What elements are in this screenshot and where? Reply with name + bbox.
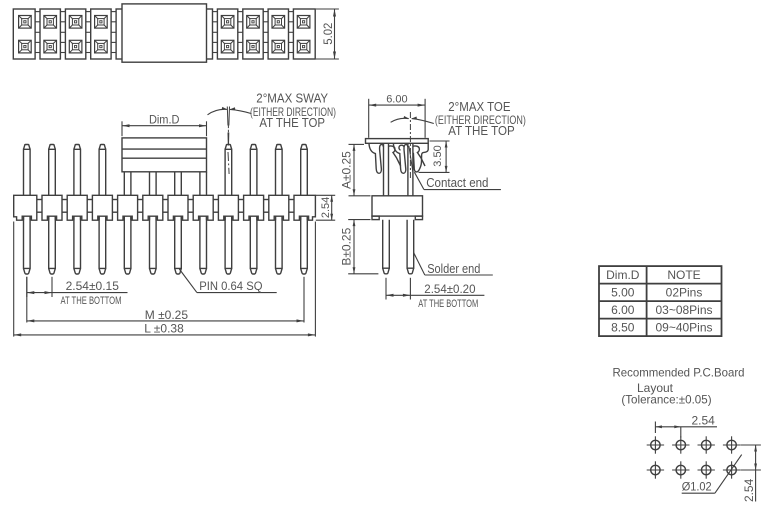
front view pin 1 contact post: [24, 145, 31, 197]
front view pin 8 solder tail: [200, 215, 207, 274]
svg-text:M ±0.25: M ±0.25: [145, 308, 189, 322]
svg-text:(Tolerance:±0.05): (Tolerance:±0.05): [621, 392, 711, 406]
front view pin 10 contact post: [250, 145, 257, 197]
front view pin 3 notch segment: [74, 216, 81, 220]
top view pin 3 row B: [69, 40, 82, 53]
front view insulator block 9: [218, 195, 238, 220]
top view web between insulator 9 and 10: [238, 12, 243, 53]
svg-text:AT THE TOP: AT THE TOP: [259, 115, 325, 130]
dimension 2.54±0.15 at the bottom: [27, 277, 128, 307]
side view right retention hook: [413, 143, 428, 172]
front view pin 8 notch segment: [200, 216, 207, 220]
top view web between insulator 5 and 6: [136, 12, 141, 53]
table frame: [599, 266, 722, 336]
leader PIN 0.64 SQ: [179, 269, 276, 293]
front view insulator block 12: [294, 195, 315, 220]
leader Ø1.02 hole diameter: [682, 455, 742, 494]
top view pin 1 row A: [19, 16, 32, 29]
leader Solder end: [414, 252, 493, 275]
side view contact 2 spring finger: [393, 143, 407, 173]
PCB layout heading: [613, 366, 745, 407]
front view pin 3 contact post: [74, 145, 81, 197]
svg-text:8.50: 8.50: [611, 321, 635, 335]
PCB hole r1c1: [647, 436, 664, 453]
top view web between insulator 4 and 5: [111, 12, 116, 53]
svg-text:Solder end: Solder end: [427, 262, 480, 276]
top view: pin header strip (plan view): [13, 4, 339, 62]
top view pin 10 row A: [247, 16, 260, 29]
svg-text:2.54: 2.54: [692, 413, 716, 427]
svg-text:2°MAX TOE: 2°MAX TOE: [448, 99, 510, 114]
svg-text:Ø1.02: Ø1.02: [682, 479, 712, 493]
svg-text:PIN 0.64 SQ: PIN 0.64 SQ: [199, 279, 262, 293]
svg-text:2.54: 2.54: [742, 478, 756, 502]
front view pin 1 notch segment: [24, 216, 31, 220]
front view web between blocks 4/5: [112, 200, 117, 213]
side view contact 2 retention knob: [413, 146, 425, 166]
front view pin 2 contact post: [49, 145, 56, 197]
front view web between blocks 8/9: [213, 200, 218, 213]
top view pin 10 row B: [247, 40, 260, 53]
top view web between insulator 11 and 12: [289, 12, 294, 53]
top view pin 2 row A: [44, 16, 57, 29]
PCB hole r1c2: [672, 436, 689, 453]
front view pin 8 shank below spacer: [200, 172, 207, 197]
top view pin 12 row B: [297, 40, 310, 53]
side view insulator housing: [372, 196, 423, 220]
front view insulator block 4: [92, 195, 112, 220]
top view insulator block 8: [192, 9, 212, 59]
top view insulator block 6: [141, 9, 161, 59]
PCB hole r2c3: [698, 461, 715, 478]
svg-text:L ±0.38: L ±0.38: [144, 321, 184, 335]
PCB hole r2c1: [647, 461, 664, 478]
front view pin 9 notch segment: [225, 216, 232, 220]
leader Contact end: [414, 172, 501, 190]
front view pin 4 notch segment: [99, 216, 106, 220]
svg-text:09~40Pins: 09~40Pins: [655, 321, 712, 335]
svg-text:Recommended P.C.Board: Recommended P.C.Board: [613, 366, 745, 380]
front view pin 9 (sway pin): [225, 107, 232, 197]
svg-text:2.54±0.15: 2.54±0.15: [66, 279, 120, 293]
2 deg max sway annotation: [208, 90, 337, 130]
top view insulator block 4: [91, 9, 111, 59]
svg-text:2°MAX SWAY: 2°MAX SWAY: [256, 90, 328, 105]
svg-text:3.50: 3.50: [432, 145, 444, 166]
dimension Dim.D: [122, 112, 207, 136]
front view web between blocks 1/2: [37, 200, 42, 213]
svg-text:2.54±0.20: 2.54±0.20: [424, 282, 476, 296]
front view web between blocks 3/4: [87, 200, 92, 213]
top view pin 4 row A: [95, 16, 108, 29]
dimension B±0.25: [340, 220, 379, 274]
front view pin 6 solder tail: [150, 215, 157, 274]
front view insulator block 8: [193, 195, 213, 220]
front view pin 2 notch segment: [49, 216, 56, 220]
side view toe deflection line: [409, 146, 413, 172]
top view pin 9 row A: [221, 16, 234, 29]
side view contact top plate: [366, 139, 429, 144]
svg-text:5.02: 5.02: [321, 23, 335, 45]
dimension 3.50: [419, 141, 450, 172]
front view pin 7 solder tail: [175, 215, 182, 274]
top view pin 3 row A: [69, 16, 82, 29]
top view insulator block 10: [243, 9, 263, 59]
top view insulator block 9: [217, 9, 237, 59]
front view pin 5 notch segment: [124, 216, 131, 220]
front view pin 4 solder tail: [99, 215, 106, 274]
table row 8.50: [611, 321, 712, 335]
front view web between blocks 5/6: [138, 200, 143, 213]
top view web between insulator 1 and 2: [35, 12, 40, 53]
front view pin 7 notch segment: [175, 216, 182, 220]
svg-text:AT THE TOP: AT THE TOP: [448, 123, 515, 138]
svg-text:AT THE BOTTOM: AT THE BOTTOM: [418, 298, 478, 310]
front view web between blocks 9/10: [238, 200, 243, 213]
front view pin 10 solder tail: [250, 215, 257, 274]
top view pin 1 row B: [19, 40, 32, 53]
top view insulator block 3: [65, 9, 85, 59]
table row 6.00: [611, 303, 712, 317]
top view pin 12 row A: [297, 16, 310, 29]
top view pin 4 row B: [95, 40, 108, 53]
top view insulator block 2: [40, 9, 60, 59]
table row lines: [599, 284, 722, 319]
front view pin 10 notch segment: [250, 216, 257, 220]
front view insulator block 10: [244, 195, 264, 220]
PCB hole r2c2: [672, 461, 689, 478]
top view web between insulator 7 and 8: [187, 12, 192, 53]
svg-text:Dim.D: Dim.D: [606, 268, 640, 282]
front view pin 4 contact post: [99, 145, 106, 197]
front view insulator block 7: [168, 195, 188, 220]
top view pin 9 row B: [221, 40, 234, 53]
front view insulator block 3: [67, 195, 87, 220]
top view pin 11 row A: [272, 16, 285, 29]
top view insulator block 5: [116, 9, 136, 59]
front view pin 11 notch segment: [276, 216, 283, 220]
top view insulator block 1: [13, 9, 35, 59]
top view web between insulator 6 and 7: [162, 12, 167, 53]
dimension 2.54 (row pitch, front view): [316, 195, 335, 220]
table row 5.00: [611, 286, 702, 300]
front view insulator block 1: [14, 195, 37, 220]
2 deg max toe annotation: [391, 99, 526, 178]
side view contact 1 spring finger: [369, 143, 383, 173]
front view pin 1 solder tail: [24, 215, 31, 274]
top view insulator block 11: [268, 9, 288, 59]
front view pin 6 notch segment: [150, 216, 157, 220]
dimension 2.54 (hole pitch horizontal): [655, 413, 717, 437]
dimension A±0.25: [340, 144, 371, 195]
PCB hole r2c4: [723, 461, 740, 478]
top view insulator block 7: [167, 9, 187, 59]
top view pin 2 row B: [44, 40, 57, 53]
top view web between insulator 8 and 9: [212, 12, 217, 53]
front view pin 12 notch segment: [301, 216, 308, 220]
svg-text:Contact end: Contact end: [426, 176, 488, 190]
table row Dim.D: [606, 268, 701, 282]
svg-text:Dim.D: Dim.D: [149, 112, 180, 126]
front view pin 12 solder tail: [301, 215, 308, 274]
svg-text:2.54: 2.54: [320, 197, 332, 218]
front view spacer (Dim.D body): [122, 138, 207, 172]
side view contact 1 retention knob: [389, 146, 401, 166]
PCB hole r1c4: [723, 436, 740, 453]
top view web between insulator 3 and 4: [86, 12, 91, 53]
side view pin 2 solder tail: [407, 220, 414, 274]
front view pin 3 solder tail: [74, 215, 81, 274]
recommended PCB layout: [613, 366, 761, 503]
front view web between blocks 7/8: [188, 200, 193, 213]
front view pin 11 solder tail: [276, 215, 283, 274]
side view: single position profile: [340, 94, 526, 310]
front view pin 7 shank below spacer: [175, 172, 182, 197]
dimension L ±0.38: [14, 222, 316, 337]
dimension 6.00: [369, 94, 425, 138]
side view pin 1 solder tail: [383, 220, 390, 274]
PCB hole r1c3: [698, 436, 715, 453]
front view pin 12 contact post: [301, 145, 308, 197]
front view insulator block 6: [143, 195, 163, 220]
top view web between insulator 2 and 3: [60, 12, 65, 53]
side view pin 2 upper shank: [408, 143, 413, 196]
svg-text:02Pins: 02Pins: [666, 286, 703, 300]
front view web between blocks 10/11: [264, 200, 269, 213]
front view insulator block 5: [118, 195, 138, 220]
top view insulator block 12: [293, 9, 315, 59]
front view pin 11 contact post: [276, 145, 283, 197]
front view: pin header assembly: [14, 90, 336, 336]
dimension 2.54 (hole pitch vertical): [741, 445, 761, 502]
top view central body block: [122, 4, 207, 62]
front view pin 5 shank below spacer: [124, 172, 131, 197]
front view pin 6 shank below spacer: [150, 172, 157, 197]
front view insulator block 2: [42, 195, 62, 220]
front view web between blocks 6/7: [163, 200, 168, 213]
svg-text:AT THE BOTTOM: AT THE BOTTOM: [61, 295, 122, 307]
front view insulator block 11: [269, 195, 289, 220]
front view pin 9 solder tail: [225, 215, 232, 274]
table column divider: [646, 266, 648, 336]
top view pin 11 row B: [272, 40, 285, 53]
side view pin 1 upper shank: [384, 143, 389, 196]
front view web between blocks 11/12: [289, 200, 294, 213]
front view web between blocks 2/3: [62, 200, 67, 213]
svg-text:A±0.25: A±0.25: [340, 151, 354, 189]
dimension 2.54±0.20 at the bottom (side view): [386, 278, 484, 310]
top view web between insulator 10 and 11: [263, 12, 268, 53]
front view pin 2 solder tail: [49, 215, 56, 274]
svg-text:NOTE: NOTE: [667, 268, 700, 282]
Dim.D / NOTE table: [599, 266, 722, 336]
svg-text:5.00: 5.00: [611, 286, 635, 300]
svg-text:6.00: 6.00: [386, 94, 407, 106]
svg-text:6.00: 6.00: [611, 303, 635, 317]
front view pin 5 solder tail: [124, 215, 131, 274]
svg-text:03~08Pins: 03~08Pins: [655, 303, 712, 317]
svg-text:B±0.25: B±0.25: [340, 227, 354, 265]
dimension M ±0.25: [27, 277, 304, 323]
dimension 5.02 (strip width): [316, 9, 339, 59]
